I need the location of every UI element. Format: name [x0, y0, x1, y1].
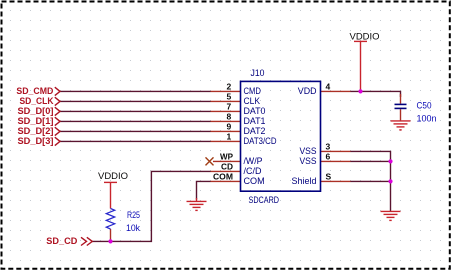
svg-text:SD_D[3]: SD_D[3]	[18, 136, 54, 147]
svg-text:4: 4	[326, 81, 331, 91]
svg-text:9: 9	[227, 121, 232, 131]
svg-text:S: S	[326, 171, 332, 181]
ground under VSS/Shield column	[381, 211, 401, 220]
pin 8 DAT1 stub	[211, 120, 241, 122]
svg-text:1: 1	[227, 131, 232, 141]
node SD_CLK port chevron	[55, 97, 60, 105]
capacitor C50 plates	[395, 104, 407, 108]
svg-text:R25: R25	[127, 210, 140, 221]
no-connect X on WP pin	[206, 157, 214, 165]
junction R25/SD_CD node	[108, 239, 112, 243]
wire VSS pin 6 to column	[351, 160, 391, 162]
wire SD_D[1] net horizontal	[60, 120, 211, 122]
svg-text:Shield: Shield	[292, 176, 317, 187]
wire SD_D[0] net horizontal	[60, 110, 211, 112]
pin 3 VSS stub	[321, 150, 351, 152]
wire SD_CLK net horizontal	[60, 100, 211, 102]
capacitor C50 upper pin	[400, 94, 402, 104]
pin WP stub	[213, 160, 241, 162]
svg-text:100n: 100n	[417, 114, 437, 125]
wire VDD pin to VDDIO node and C50	[351, 91, 401, 97]
svg-text:J10: J10	[251, 68, 265, 79]
junction Shield node	[388, 179, 392, 183]
svg-text:C50: C50	[417, 100, 432, 111]
resistor R25 zigzag	[106, 209, 114, 230]
svg-text:COM: COM	[244, 176, 265, 187]
wire COM pin to ground	[197, 181, 211, 199]
pin 7 DAT0 stub	[211, 110, 241, 112]
ground stem under COM	[196, 198, 198, 201]
pin 9 DAT2 stub	[211, 130, 241, 132]
node SD_D[1] port chevron	[55, 117, 60, 125]
resistor R25 lower pin	[110, 229, 112, 241]
svg-text:CD: CD	[221, 161, 233, 171]
svg-text:DAT3/CD: DAT3/CD	[244, 136, 277, 147]
connector J10 body	[241, 81, 321, 191]
wire SD_D[3] net horizontal	[60, 140, 211, 142]
wire VSS pin 3 across and down	[351, 151, 391, 211]
svg-text:6: 6	[326, 151, 331, 161]
wire SD_CD net: horizontal, up to CD pin	[92, 171, 211, 241]
svg-text:VDDIO: VDDIO	[98, 171, 128, 182]
wire Shield pin to column	[351, 180, 391, 182]
node SD_CD port double chevron	[81, 237, 92, 245]
junction VDDIO/VDD node	[358, 89, 362, 93]
svg-text:WP: WP	[220, 151, 233, 161]
pin COM stub	[211, 180, 241, 182]
svg-text:VDD: VDD	[298, 86, 317, 97]
pin S Shield stub	[321, 180, 351, 182]
wire SD_CMD net horizontal	[60, 90, 211, 92]
junction VSS pins node	[388, 159, 392, 163]
svg-text:VSS: VSS	[300, 156, 317, 167]
pin 1 DAT3/CD stub	[211, 140, 241, 142]
pin 5 CLK stub	[211, 100, 241, 102]
node SD_D[3] port chevron	[55, 137, 60, 145]
pin 4 VDD stub	[321, 90, 351, 92]
svg-text:5: 5	[227, 91, 232, 101]
node SD_CMD port chevron	[55, 87, 60, 95]
svg-text:3: 3	[326, 141, 331, 151]
svg-text:COM: COM	[213, 171, 233, 181]
node SD_D[0] port chevron	[55, 107, 60, 115]
ground under C50	[391, 121, 411, 130]
node SD_D[2] port chevron	[55, 127, 60, 135]
svg-text:7: 7	[227, 101, 232, 111]
svg-text:10k: 10k	[126, 223, 140, 234]
capacitor C50 lower pin	[400, 109, 402, 120]
svg-text:VDDIO: VDDIO	[350, 32, 380, 43]
pin 6 VSS stub	[321, 160, 351, 162]
ground under COM pin	[187, 201, 207, 210]
wire SD_D[2] net horizontal	[60, 130, 211, 132]
svg-text:2: 2	[227, 81, 232, 91]
power symbol VDDIO above R25	[104, 182, 117, 208]
svg-text:SDCARD: SDCARD	[249, 195, 280, 206]
svg-text:SD_CD: SD_CD	[46, 236, 77, 247]
pin CD stub	[211, 170, 241, 172]
power symbol VDDIO top right	[354, 41, 367, 91]
svg-text:8: 8	[227, 111, 232, 121]
pin 2 CMD stub	[211, 90, 241, 92]
